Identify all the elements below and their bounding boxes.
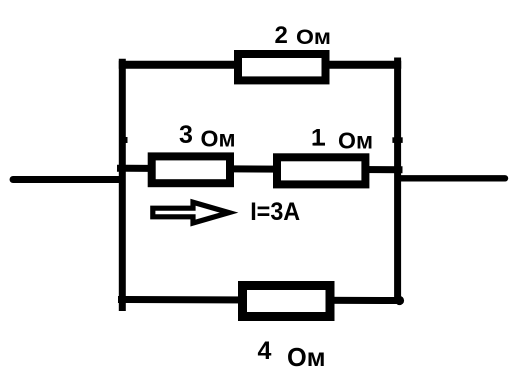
svg-text:3: 3 xyxy=(179,121,193,149)
node tick on right rail xyxy=(392,137,402,143)
svg-text:4: 4 xyxy=(258,337,272,365)
svg-text:Ом: Ом xyxy=(287,342,326,372)
wire right vertical rail xyxy=(394,58,401,303)
wire bottom branch xyxy=(118,300,399,301)
node tick on left rail xyxy=(119,137,128,143)
wire top branch xyxy=(119,61,401,69)
svg-text:1: 1 xyxy=(311,125,324,152)
svg-text:2: 2 xyxy=(275,22,288,49)
svg-text:Ом: Ом xyxy=(296,25,331,49)
resistor R4 body xyxy=(243,286,331,317)
wire left external lead xyxy=(13,176,122,183)
wire left vertical rail xyxy=(119,59,126,311)
resistor R2 body xyxy=(238,54,326,80)
svg-text:Ом: Ом xyxy=(338,128,373,154)
svg-text:Ом: Ом xyxy=(201,126,236,152)
current arrow xyxy=(153,202,229,223)
resistor R3 body xyxy=(152,156,230,183)
wire middle branch xyxy=(117,168,403,170)
svg-text:I=3А: I=3А xyxy=(250,198,300,226)
node bottom-right junction dot xyxy=(395,296,404,305)
wire right external lead xyxy=(398,175,505,181)
resistor R1 body xyxy=(277,157,365,184)
